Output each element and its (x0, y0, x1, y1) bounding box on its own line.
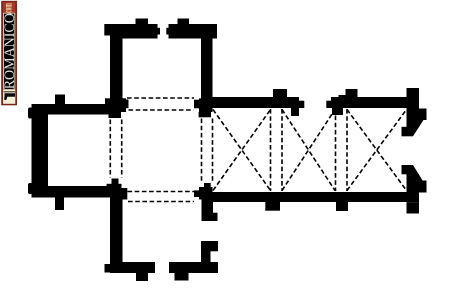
svg-text:ROMANICO: ROMANICO (1, 13, 18, 89)
